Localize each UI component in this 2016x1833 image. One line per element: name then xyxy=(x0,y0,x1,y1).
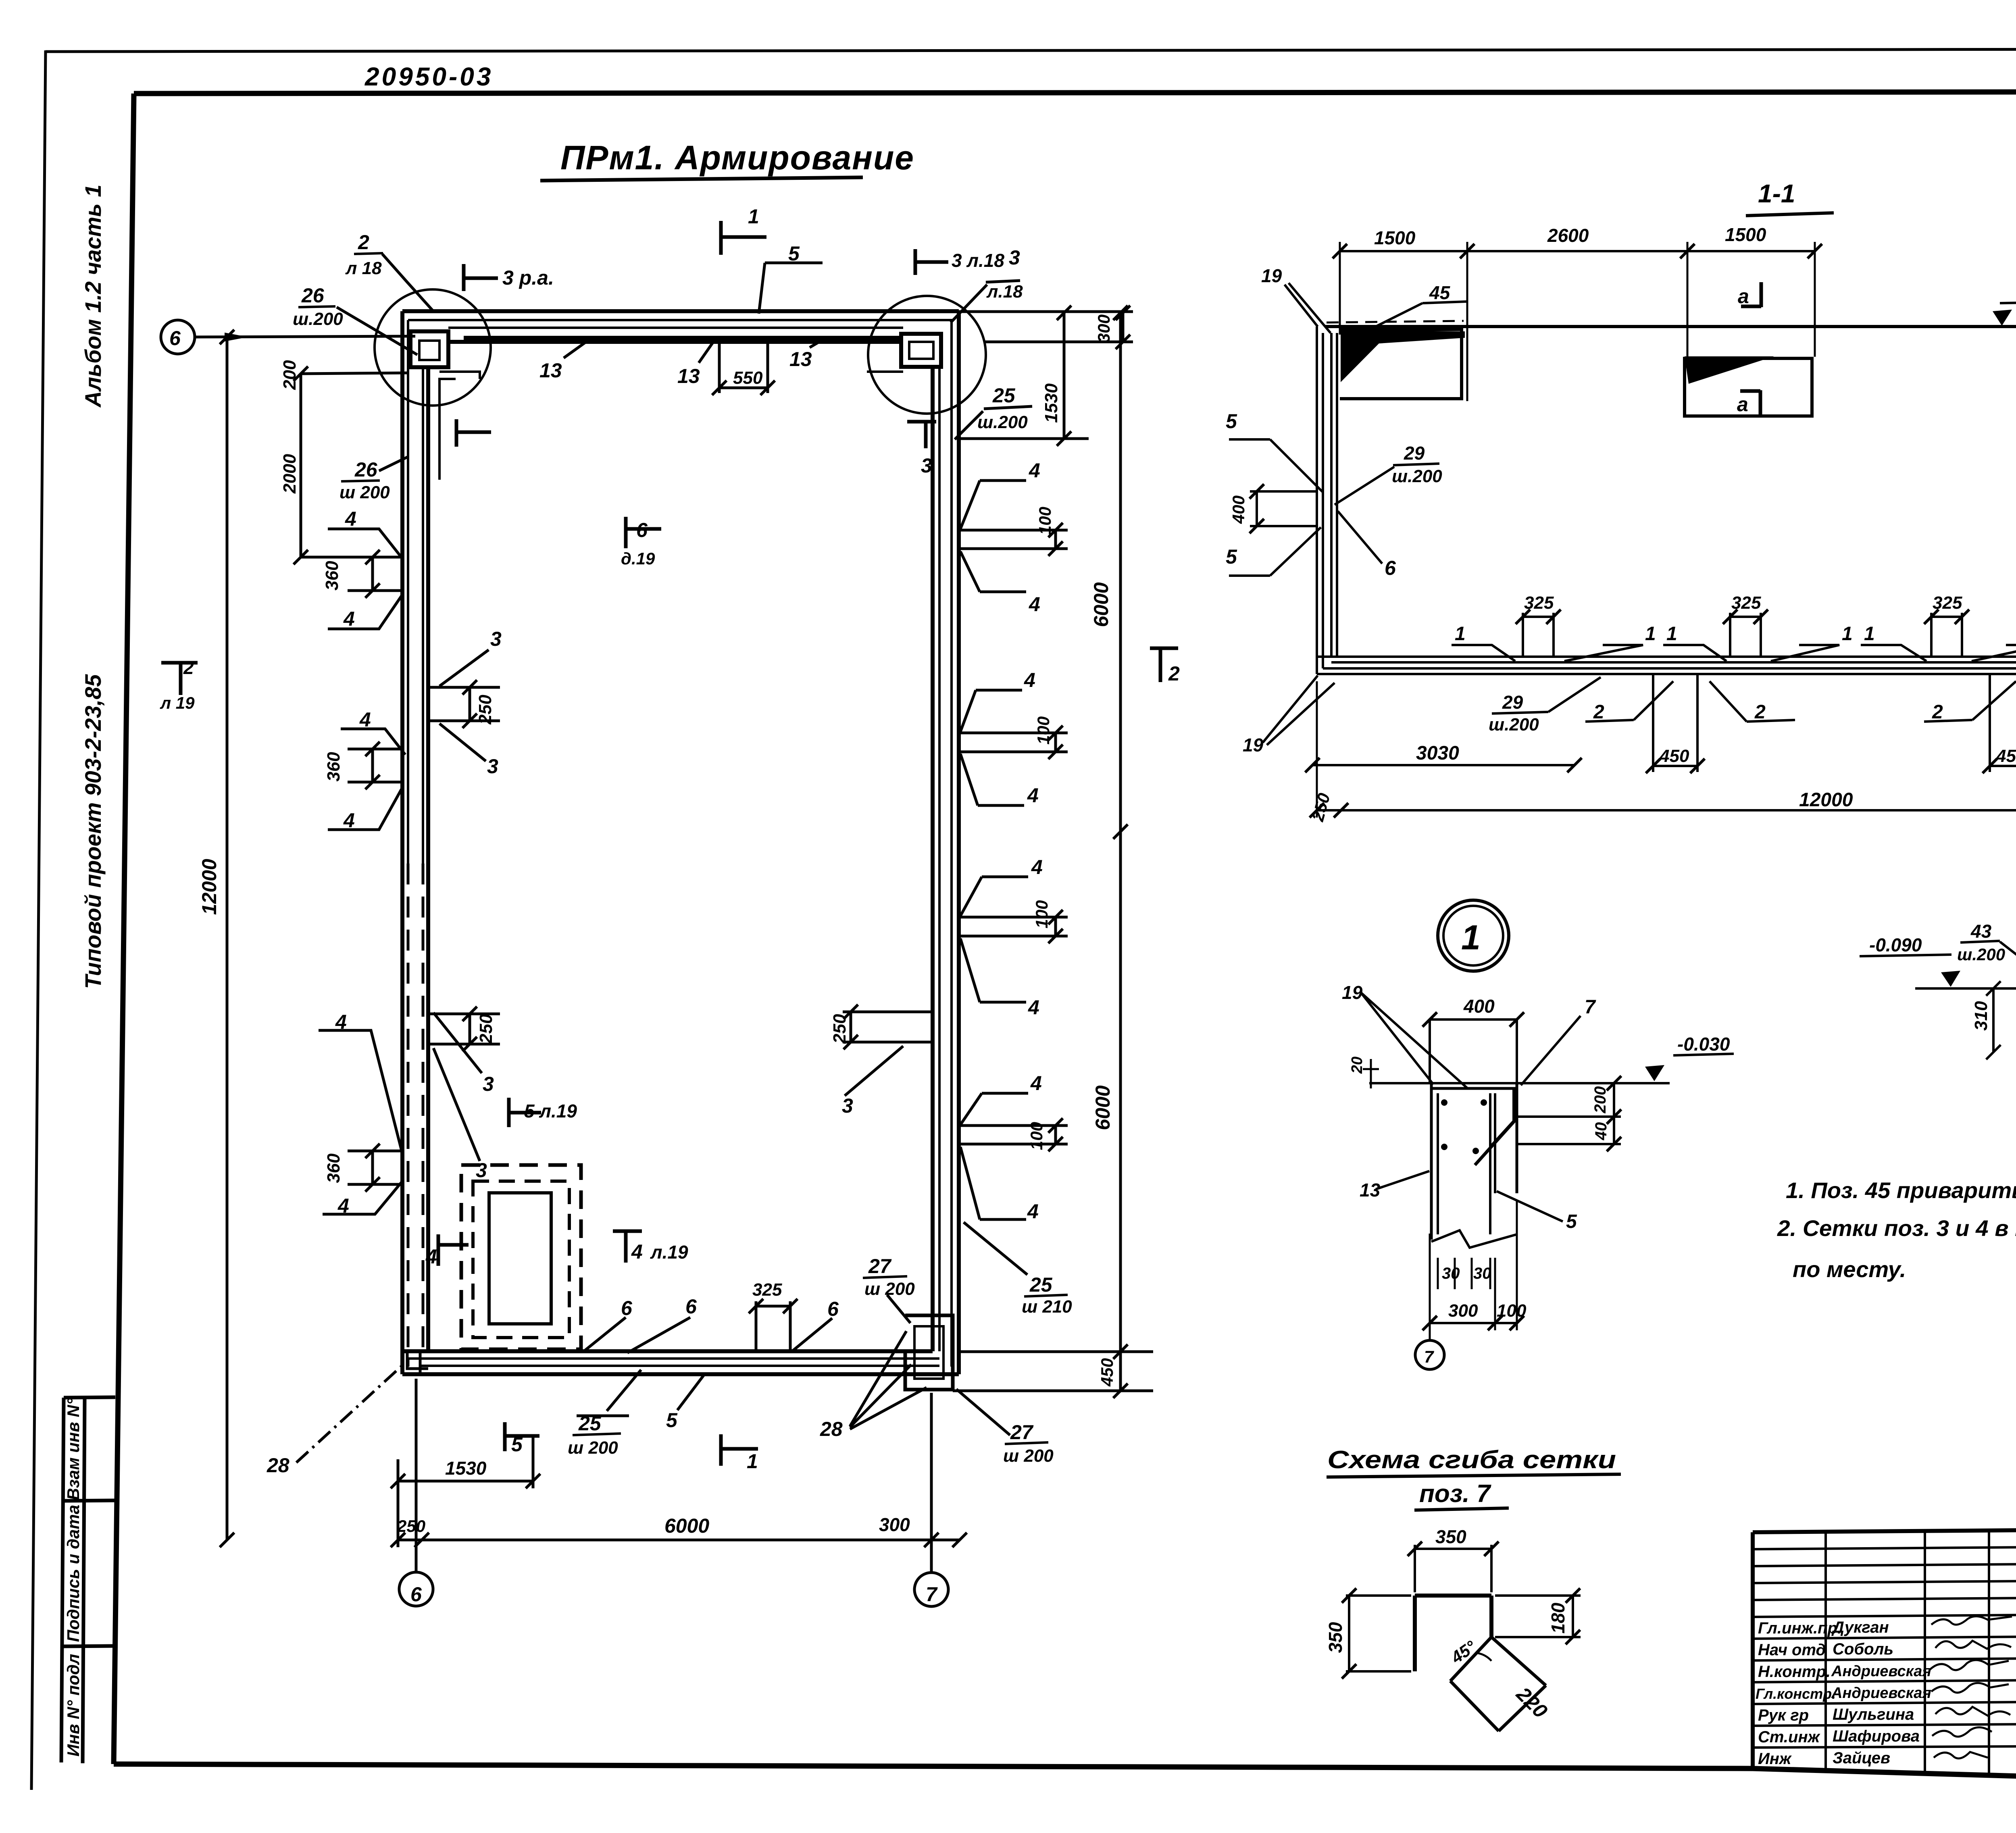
svg-text:ПРм1. Армирование: ПРм1. Армирование xyxy=(560,139,914,177)
svg-text:3: 3 xyxy=(921,454,932,477)
svg-text:6000: 6000 xyxy=(1091,1085,1114,1130)
svg-text:Н.контр.: Н.контр. xyxy=(1758,1663,1831,1681)
svg-text:100: 100 xyxy=(1497,1301,1527,1321)
svg-text:Гл.инж.пр.: Гл.инж.пр. xyxy=(1758,1619,1842,1637)
svg-text:Шульгина: Шульгина xyxy=(1833,1706,1914,1723)
svg-text:Рук гр: Рук гр xyxy=(1758,1706,1809,1724)
svg-text:-0.030: -0.030 xyxy=(1677,1034,1730,1055)
svg-text:2600: 2600 xyxy=(1547,225,1589,246)
svg-text:27: 27 xyxy=(868,1255,892,1277)
svg-text:1: 1 xyxy=(1842,623,1853,645)
svg-text:19: 19 xyxy=(1243,734,1264,755)
svg-text:4: 4 xyxy=(1027,1200,1039,1223)
svg-text:30: 30 xyxy=(1473,1265,1491,1282)
svg-text:6: 6 xyxy=(636,519,648,541)
svg-text:4: 4 xyxy=(1031,856,1043,878)
svg-text:45: 45 xyxy=(1429,282,1451,303)
svg-text:4: 4 xyxy=(345,508,356,530)
svg-text:4: 4 xyxy=(335,1011,347,1033)
svg-text:Инж: Инж xyxy=(1758,1750,1792,1768)
svg-text:4: 4 xyxy=(359,708,371,731)
svg-text:350: 350 xyxy=(1435,1526,1466,1547)
svg-text:ш 200: ш 200 xyxy=(568,1438,618,1458)
svg-text:ш 210: ш 210 xyxy=(1022,1297,1072,1317)
svg-text:ш.200: ш.200 xyxy=(977,412,1028,432)
svg-text:Зайцев: Зайцев xyxy=(1833,1749,1890,1767)
svg-text:250: 250 xyxy=(476,1014,496,1044)
svg-text:1: 1 xyxy=(747,1450,758,1473)
svg-text:30: 30 xyxy=(1442,1265,1460,1282)
svg-text:1: 1 xyxy=(1666,623,1677,645)
svg-text:2. Сетки поз. 3 и 4 в места: 2. Сетки поз. 3 и 4 в местах отверстий в… xyxy=(1777,1215,2016,1241)
svg-text:29: 29 xyxy=(1404,443,1425,464)
svg-text:300: 300 xyxy=(1094,314,1113,343)
svg-text:3: 3 xyxy=(842,1094,853,1117)
svg-text:3: 3 xyxy=(483,1073,494,1095)
svg-text:28: 28 xyxy=(267,1454,289,1477)
svg-text:250: 250 xyxy=(830,1014,850,1044)
svg-text:по месту.: по месту. xyxy=(1793,1257,1906,1282)
svg-text:Инв N° подл: Инв N° подл xyxy=(64,1654,83,1757)
svg-text:1: 1 xyxy=(748,205,759,228)
svg-text:д.19: д.19 xyxy=(621,549,655,568)
svg-text:Андриевская: Андриевская xyxy=(1831,1685,1931,1702)
svg-text:360: 360 xyxy=(322,561,342,591)
svg-text:450: 450 xyxy=(1098,1358,1116,1387)
svg-text:Шафирова: Шафирова xyxy=(1833,1727,1920,1745)
svg-text:Гл.констр.: Гл.констр. xyxy=(1756,1685,1836,1702)
svg-text:6: 6 xyxy=(685,1295,697,1318)
svg-text:1: 1 xyxy=(1864,623,1875,645)
svg-text:19: 19 xyxy=(1261,265,1282,286)
svg-text:4: 4 xyxy=(631,1240,643,1263)
svg-text:л 19: л 19 xyxy=(160,693,195,712)
svg-text:19: 19 xyxy=(1342,982,1363,1003)
svg-text:2: 2 xyxy=(1932,701,1943,723)
svg-text:Альбом 1.2 часть 1: Альбом 1.2 часть 1 xyxy=(80,185,106,408)
svg-text:300: 300 xyxy=(1448,1301,1478,1321)
svg-text:26: 26 xyxy=(354,458,378,481)
svg-text:a: a xyxy=(1737,393,1748,416)
svg-text:325: 325 xyxy=(1731,593,1761,613)
svg-text:3030: 3030 xyxy=(1416,743,1459,764)
svg-text:4: 4 xyxy=(343,809,355,832)
svg-text:4: 4 xyxy=(1027,784,1039,807)
svg-text:ш.200: ш.200 xyxy=(1957,945,2005,964)
svg-text:13: 13 xyxy=(539,359,562,382)
svg-text:Дукган: Дукган xyxy=(1831,1619,1889,1636)
svg-text:5: 5 xyxy=(788,242,800,265)
svg-text:ш.200: ш.200 xyxy=(1392,466,1442,486)
svg-text:28: 28 xyxy=(820,1418,843,1440)
svg-text:ш.200: ш.200 xyxy=(293,309,343,329)
svg-text:-0.090: -0.090 xyxy=(1869,934,1922,955)
svg-text:ш.200: ш.200 xyxy=(1489,715,1539,734)
svg-text:26: 26 xyxy=(301,284,325,307)
svg-text:3: 3 xyxy=(1009,246,1020,269)
svg-text:1: 1 xyxy=(1455,623,1466,645)
svg-text:360: 360 xyxy=(324,1153,344,1183)
svg-text:5: 5 xyxy=(666,1409,678,1431)
svg-text:360: 360 xyxy=(324,752,344,782)
svg-text:6000: 6000 xyxy=(664,1515,709,1537)
svg-text:450: 450 xyxy=(1996,746,2016,766)
svg-text:450: 450 xyxy=(1659,746,1689,766)
svg-text:a: a xyxy=(1738,285,1749,308)
svg-text:20: 20 xyxy=(1349,1057,1366,1074)
svg-text:1: 1 xyxy=(1645,623,1656,645)
svg-text:5: 5 xyxy=(1226,410,1237,433)
svg-text:325: 325 xyxy=(752,1280,782,1300)
svg-text:2: 2 xyxy=(1593,701,1604,723)
svg-text:6: 6 xyxy=(169,327,181,350)
svg-text:7: 7 xyxy=(1585,997,1596,1018)
svg-text:180: 180 xyxy=(1547,1602,1568,1633)
svg-text:2: 2 xyxy=(358,231,369,254)
svg-text:4: 4 xyxy=(343,608,355,630)
svg-text:ш 200: ш 200 xyxy=(864,1279,915,1299)
svg-text:25: 25 xyxy=(578,1412,602,1435)
svg-text:поз. 7: поз. 7 xyxy=(1419,1480,1491,1508)
svg-text:25: 25 xyxy=(992,384,1016,407)
svg-text:3 л.18: 3 л.18 xyxy=(952,250,1004,271)
svg-text:300: 300 xyxy=(879,1514,910,1535)
svg-text:400: 400 xyxy=(1463,996,1495,1017)
svg-text:л.18: л.18 xyxy=(986,282,1023,302)
svg-text:325: 325 xyxy=(1933,593,1962,613)
svg-text:2: 2 xyxy=(183,657,194,678)
svg-text:400: 400 xyxy=(1229,495,1248,524)
svg-text:1530: 1530 xyxy=(1041,383,1061,423)
svg-text:3: 3 xyxy=(476,1159,487,1182)
svg-text:4: 4 xyxy=(1028,996,1039,1019)
svg-text:100: 100 xyxy=(1032,900,1051,928)
svg-text:Ст.инж: Ст.инж xyxy=(1758,1728,1821,1746)
svg-text:4: 4 xyxy=(1030,1072,1042,1094)
svg-text:310: 310 xyxy=(1971,1001,1991,1031)
svg-text:1500: 1500 xyxy=(1374,227,1416,248)
svg-text:7: 7 xyxy=(926,1583,938,1606)
svg-text:3: 3 xyxy=(490,628,502,650)
svg-text:1-1: 1-1 xyxy=(1758,179,1795,208)
svg-text:4: 4 xyxy=(1024,669,1035,691)
svg-text:1: 1 xyxy=(1461,918,1481,957)
svg-text:325: 325 xyxy=(1524,593,1554,613)
svg-text:40: 40 xyxy=(1592,1122,1610,1141)
svg-text:25: 25 xyxy=(1029,1273,1053,1296)
svg-text:Андриевская: Андриевская xyxy=(1831,1663,1931,1680)
svg-text:л.19: л.19 xyxy=(650,1242,688,1263)
svg-text:550: 550 xyxy=(733,368,763,388)
svg-text:5: 5 xyxy=(511,1433,523,1456)
svg-text:200: 200 xyxy=(280,360,300,390)
svg-text:3 р.а.: 3 р.а. xyxy=(502,266,554,289)
svg-text:Схема сгиба сетки: Схема сгиба сетки xyxy=(1327,1446,1616,1474)
svg-text:13: 13 xyxy=(789,348,812,370)
svg-text:6: 6 xyxy=(621,1297,633,1319)
svg-text:12000: 12000 xyxy=(1799,789,1853,811)
svg-text:13: 13 xyxy=(677,365,700,387)
svg-text:Подпись и дата: Подпись и дата xyxy=(64,1505,83,1642)
svg-text:250: 250 xyxy=(397,1517,425,1535)
svg-text:4: 4 xyxy=(1029,593,1040,616)
svg-text:4: 4 xyxy=(425,1245,437,1268)
svg-text:2: 2 xyxy=(1168,662,1180,685)
svg-text:5: 5 xyxy=(1566,1211,1577,1232)
svg-text:Взам инв N°: Взам инв N° xyxy=(64,1398,83,1500)
svg-text:2000: 2000 xyxy=(280,454,300,494)
svg-text:1. Поз. 45 приварить к армат: 1. Поз. 45 приварить к арматуре стенки. xyxy=(1786,1178,2016,1203)
svg-text:ш 200: ш 200 xyxy=(339,483,390,502)
svg-text:5: 5 xyxy=(1226,545,1237,568)
svg-text:6: 6 xyxy=(1385,557,1396,579)
svg-text:л 18: л 18 xyxy=(345,258,382,278)
svg-text:100: 100 xyxy=(1034,716,1053,745)
svg-text:7: 7 xyxy=(1424,1347,1434,1366)
svg-text:1530: 1530 xyxy=(445,1458,487,1479)
svg-text:1500: 1500 xyxy=(1725,224,1766,245)
svg-text:29: 29 xyxy=(1502,692,1523,713)
svg-text:5 л.19: 5 л.19 xyxy=(524,1101,577,1121)
svg-text:Соболь: Соболь xyxy=(1833,1640,1893,1658)
svg-text:12000: 12000 xyxy=(198,859,221,915)
svg-text:100: 100 xyxy=(1035,507,1054,535)
svg-text:6: 6 xyxy=(827,1298,839,1320)
svg-text:6: 6 xyxy=(410,1583,422,1606)
svg-text:4: 4 xyxy=(337,1194,349,1217)
svg-text:4: 4 xyxy=(1029,459,1040,482)
svg-text:6000: 6000 xyxy=(1090,582,1112,627)
svg-text:250: 250 xyxy=(475,695,495,725)
svg-text:Типовой проект 903-2-23,85: Типовой проект 903-2-23,85 xyxy=(80,674,106,989)
svg-text:2: 2 xyxy=(1754,701,1766,723)
svg-text:Нач отд: Нач отд xyxy=(1758,1641,1826,1659)
svg-text:3: 3 xyxy=(487,755,498,778)
svg-text:200: 200 xyxy=(1591,1086,1609,1114)
svg-text:ш 200: ш 200 xyxy=(1003,1446,1054,1466)
svg-text:27: 27 xyxy=(1010,1421,1034,1444)
svg-text:350: 350 xyxy=(1325,1622,1346,1653)
svg-text:13: 13 xyxy=(1360,1180,1381,1201)
svg-text:20950-03: 20950-03 xyxy=(364,62,493,91)
svg-text:100: 100 xyxy=(1027,1122,1046,1150)
svg-text:43: 43 xyxy=(1970,921,1992,942)
